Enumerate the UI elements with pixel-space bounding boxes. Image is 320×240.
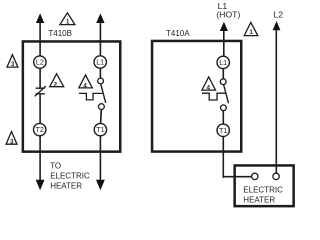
svg-text:1: 1	[66, 18, 70, 25]
svg-text:2: 2	[54, 81, 58, 88]
svg-text:T410A: T410A	[166, 29, 190, 38]
svg-text:T2: T2	[36, 125, 44, 134]
svg-text:ELECTRIC: ELECTRIC	[243, 185, 283, 194]
svg-text:(HOT): (HOT)	[216, 9, 240, 19]
svg-text:4: 4	[207, 85, 211, 92]
svg-text:HEATER: HEATER	[243, 195, 275, 204]
svg-text:L1: L1	[96, 58, 104, 67]
svg-text:T410B: T410B	[48, 29, 72, 38]
svg-text:T1: T1	[96, 125, 104, 134]
svg-text:HEATER: HEATER	[50, 181, 82, 190]
svg-text:4: 4	[83, 82, 87, 89]
svg-text:1: 1	[249, 29, 253, 36]
svg-text:L2: L2	[36, 58, 44, 67]
svg-text:ELECTRIC: ELECTRIC	[50, 171, 90, 180]
svg-text:L2: L2	[273, 9, 283, 19]
svg-text:T1: T1	[219, 126, 227, 135]
svg-text:TO: TO	[50, 161, 61, 170]
svg-text:L1: L1	[219, 58, 227, 67]
